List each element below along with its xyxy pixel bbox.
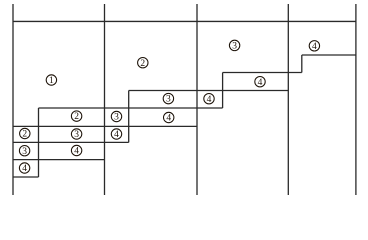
svg-text:3: 3 [74, 130, 79, 140]
svg-text:3: 3 [232, 42, 237, 52]
stage row horizontal y160 [13, 159, 105, 161]
svg-text:4: 4 [74, 147, 79, 157]
svg-text:2: 2 [140, 59, 145, 69]
stage step vertical x223 [222, 73, 224, 109]
svg-text:4: 4 [166, 114, 171, 124]
stage step horizontal y91 [129, 90, 289, 92]
stage step vertical x39 [38, 108, 40, 177]
label circled 3 instruction 3 [229, 40, 239, 51]
time axis tick line t1 [104, 4, 106, 195]
time axis tick line t2 [196, 4, 198, 195]
label circled 3 stage band y91-108 [163, 93, 173, 104]
label circled 4 row D [19, 163, 29, 174]
time axis tick line t4 [355, 4, 357, 195]
label circled 4 instruction 4 [309, 41, 319, 52]
svg-text:4: 4 [114, 130, 119, 140]
top time axis horizontal [13, 20, 356, 22]
label circled 4 stage band y91-108 [204, 94, 214, 105]
time axis tick line t0 [12, 4, 14, 195]
label circled 4 row B [111, 129, 121, 140]
label circled 3 row A [111, 111, 121, 122]
label circled 3 row C [19, 146, 29, 157]
stage step vertical x302 [301, 55, 303, 73]
svg-text:4: 4 [258, 78, 263, 88]
stage step horizontal y108 [39, 107, 223, 109]
stage step vertical x129 [128, 91, 130, 143]
svg-text:3: 3 [114, 113, 119, 123]
label circled 2 instruction 2 [138, 58, 148, 69]
stage step horizontal y55 [302, 54, 356, 56]
svg-text:4: 4 [207, 95, 212, 105]
time axis tick line t3 [287, 4, 289, 195]
svg-text:4: 4 [22, 164, 27, 174]
svg-text:2: 2 [74, 112, 79, 122]
label circled 4 row C [71, 145, 81, 156]
stage row horizontal y126 [13, 125, 197, 127]
label circled 2 row A [71, 111, 81, 122]
label circled 4 row A [164, 112, 174, 123]
svg-text:4: 4 [312, 42, 317, 52]
label circled 3 row B [71, 129, 81, 140]
label circled 4 stage band y73-91 [255, 77, 265, 88]
svg-text:3: 3 [166, 95, 171, 105]
stage step horizontal y73 [223, 72, 302, 74]
svg-text:1: 1 [49, 76, 54, 86]
stage row horizontal y177 [13, 176, 39, 178]
label circled 2 row B [20, 128, 30, 139]
label circled 1 instruction 1 [46, 75, 56, 86]
svg-text:3: 3 [22, 147, 27, 157]
svg-text:2: 2 [22, 130, 27, 140]
stage row horizontal y142 [13, 141, 129, 143]
